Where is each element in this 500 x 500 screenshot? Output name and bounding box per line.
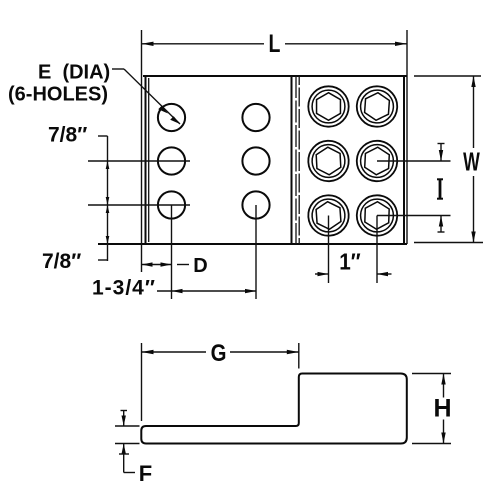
screw D3 bbox=[356, 195, 398, 237]
svg-text:H: H bbox=[433, 395, 451, 423]
dimension 1 inch bbox=[315, 272, 392, 276]
svg-text:(6-HOLES): (6-HOLES) bbox=[8, 84, 108, 106]
leader E (DIA) bbox=[112, 69, 180, 124]
hole column 2 extension line bbox=[255, 205, 257, 299]
row 2 leader bbox=[88, 160, 190, 162]
dimension H bbox=[412, 374, 451, 444]
dimension G bbox=[142, 343, 299, 421]
dimension I bbox=[438, 144, 445, 233]
svg-text:D: D bbox=[193, 255, 207, 277]
hole B2 bbox=[242, 147, 269, 174]
hole B1 bbox=[242, 104, 269, 131]
dimension D bbox=[142, 262, 190, 266]
svg-text:7/8″: 7/8″ bbox=[48, 124, 87, 147]
hole B3 bbox=[242, 191, 269, 218]
svg-text:L: L bbox=[269, 30, 281, 58]
screw row 3 leader bbox=[377, 215, 451, 217]
hole A1 bbox=[158, 104, 185, 131]
svg-text:1-3/4″: 1-3/4″ bbox=[92, 277, 156, 300]
hole A3 bbox=[158, 191, 185, 218]
svg-text:7/8″: 7/8″ bbox=[42, 250, 81, 273]
hole A2 bbox=[158, 147, 185, 174]
screw row 2 leader bbox=[377, 160, 451, 162]
svg-text:G: G bbox=[211, 340, 227, 367]
dimension 1-3/4 bbox=[157, 289, 256, 293]
dimension F bbox=[115, 411, 140, 473]
side view profile outline bbox=[141, 374, 407, 444]
screw column 2 extension line bbox=[376, 216, 378, 284]
hole column 1 extension line bbox=[171, 205, 173, 299]
barrel separator lines bbox=[292, 76, 300, 244]
screw C2 bbox=[307, 140, 349, 182]
svg-text:E (DIA): E (DIA) bbox=[38, 62, 110, 84]
dimension L bbox=[142, 30, 408, 272]
7/8 dimension line bbox=[98, 136, 109, 261]
svg-text:F: F bbox=[139, 461, 152, 486]
screw column 1 extension line bbox=[328, 216, 330, 284]
screw D2 bbox=[356, 140, 398, 182]
svg-text:W: W bbox=[463, 147, 480, 176]
screw D1 bbox=[355, 85, 398, 128]
top view body outline bbox=[98, 76, 407, 244]
screw C3 bbox=[307, 194, 350, 237]
screw C1 bbox=[308, 86, 348, 126]
svg-text:1″: 1″ bbox=[339, 248, 361, 274]
label I bbox=[437, 179, 443, 198]
row 3 leader bbox=[88, 204, 190, 206]
dimension W bbox=[414, 76, 483, 243]
